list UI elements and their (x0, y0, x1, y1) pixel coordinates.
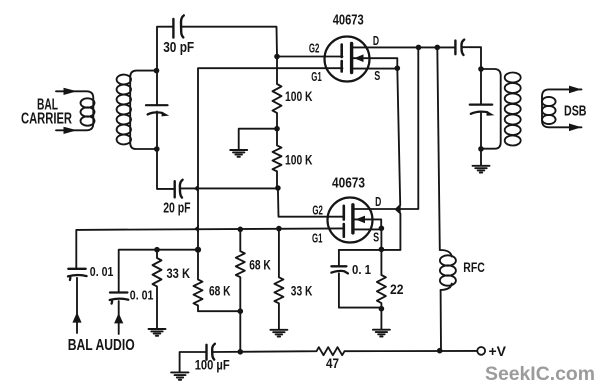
resistor 68 K (left) (194, 250, 241, 312)
arrow: audio input 1 (72, 312, 81, 322)
junction: audio rail 2 / G1 of Q1 / 68K left (195, 247, 201, 253)
junction: output tank top (478, 66, 484, 72)
inductor L1 (left tank coil) (130, 71, 156, 149)
wire: 0.1 bottom to 22 bottom node (339, 273, 382, 307)
junction: tank top node (154, 68, 160, 74)
capacitor 0.01 (right) (110, 291, 127, 293)
svg-text:CARRIER: CARRIER (21, 111, 72, 128)
inductor output tank coil (481, 69, 501, 149)
capacitor tank (left, fixed plate pair) (146, 104, 168, 106)
svg-text:22: 22 (390, 282, 404, 297)
wire: 30pF left lead + left tank vertical (upper part) (157, 27, 173, 106)
transistor Q1 drain lead + top bus to coupling cap (353, 46, 455, 48)
svg-text:RFC: RFC (463, 260, 485, 275)
junction: Q1 source node (395, 65, 401, 71)
resistor 22 (377, 249, 386, 308)
wire: audio rail 2 (BAL AUDIO phase 2 to G1 of upper FET) (119, 250, 198, 292)
capacitor coupling (output) (454, 41, 456, 55)
ground: 33K left (149, 329, 166, 336)
wire: tank vertical lower + to ground (480, 113, 482, 165)
transistor Q1 substrate lead with arrow, joins source (353, 58, 397, 68)
junction: audio rail 1 / 33K right (276, 226, 282, 232)
resistor 68 K (middle) (236, 229, 245, 351)
svg-text:47: 47 (326, 356, 339, 371)
wire: left tank vertical (lower part) + lead to 20pF (157, 112, 175, 189)
svg-text:33 K: 33 K (291, 284, 313, 299)
wire: coupling cap to output tank top (463, 47, 481, 104)
junction: G2 node of Q1 (274, 54, 280, 60)
junction: Q2 source / substrate (379, 226, 385, 232)
svg-text:40673: 40673 (332, 175, 365, 191)
arrow: carrier input bottom (64, 127, 78, 134)
wire: 22 node to ground (380, 309, 382, 330)
junction: drain bus / RFC feed (435, 45, 441, 51)
svg-text:30 pF: 30 pF (163, 40, 194, 56)
wire: G1 lead of upper FET + long vertical down to audio rail 2 (198, 68, 343, 250)
crossover jog at audio rail 1 (194, 225, 199, 233)
svg-text:S: S (374, 68, 380, 83)
inductor T1 primary (BAL CARRIER input coil) (56, 91, 93, 130)
svg-text:100 K: 100 K (285, 89, 313, 104)
svg-text:G1: G1 (311, 69, 322, 84)
wire: common source vertical with jog over lower drain wire (396, 68, 401, 249)
svg-text:40673: 40673 (333, 11, 364, 28)
wire: G2 lead upper FET (277, 56, 343, 58)
ground: 100uF (171, 372, 188, 379)
transistor Q1 40673 (upper): envelope (325, 37, 370, 82)
arrow: DSB bottom (569, 124, 582, 132)
transistor Q1 gate bars (340, 45, 343, 58)
junction: drain bus / Q2 drain feed (416, 45, 422, 51)
wire: 30pF right plate to G2 node of upper FET (181, 27, 277, 57)
transistor Q2 gate bars (342, 206, 345, 220)
wire: audio rail 1 (BAL AUDIO phase 1 to G1 of lower FET) (76, 228, 343, 268)
svg-text:S: S (373, 230, 379, 245)
arrow: DSB top (569, 86, 582, 94)
capacitor output tank (with trimmer tail) (470, 103, 492, 105)
svg-text:DSB: DSB (564, 104, 587, 120)
svg-text:100 K: 100 K (285, 153, 313, 168)
transistor Q2 drain lead, up to top bus (355, 47, 419, 209)
inductor RFC choke line (437, 47, 441, 350)
crossover jog: source vertical over drain wire (drawn above) (396, 205, 401, 213)
svg-text:0. 1: 0. 1 (352, 262, 371, 277)
junction: 100K midpoint node (274, 126, 280, 132)
junction: 68K bottoms node (238, 308, 244, 314)
junction: Q2 source rail (379, 247, 385, 253)
transistor Q2 substrate lead with arrow (355, 219, 382, 228)
junction: output tank bottom (478, 146, 484, 152)
terminal +V open circle (477, 347, 485, 355)
crossover jog at 20pF wire (194, 185, 199, 193)
junction: supply rail / RFC bottom (437, 348, 443, 354)
capacitor 30 pF (172, 19, 174, 38)
transistor Q2 source lead (355, 228, 382, 230)
svg-text:G2: G2 (312, 203, 323, 218)
wire: source rail of lower FET (339, 249, 401, 251)
junction: supply rail / bias feed (238, 349, 244, 355)
transistor Q1 source lead (353, 68, 397, 70)
junction: tank bottom node (154, 146, 160, 152)
wire: below 0.01 right with input arrow (118, 301, 120, 334)
resistor 100 K (upper) (273, 57, 282, 129)
ground: 33K right (270, 330, 287, 337)
svg-text:0. 01: 0. 01 (130, 287, 154, 302)
capacitor 100 uF (205, 345, 207, 360)
capacitor 0.01 (left) (68, 268, 85, 270)
resistor 100 K (lower) (273, 129, 282, 188)
arrow: audio input 2 (114, 313, 123, 323)
resistor 33 K (right) (274, 229, 283, 330)
svg-text:20 pF: 20 pF (163, 200, 191, 216)
svg-text:SeekIC.com: SeekIC.com (485, 364, 595, 385)
wire: 20pF right plate across vertical to 100K junction (181, 187, 278, 189)
resistor 33 K (left) (153, 250, 162, 329)
svg-text:100 µF: 100 µF (195, 356, 230, 372)
junction: 22 / 0.1 bottom node (379, 306, 385, 312)
svg-text:+V: +V (489, 344, 507, 359)
wire: below 0.01 left with input arrow (76, 278, 78, 333)
junction: audio rail 2 / 33K left (154, 247, 160, 253)
svg-text:68 K: 68 K (249, 257, 271, 272)
ground: source network (373, 330, 390, 337)
capacitor 20 pF (173, 181, 175, 197)
svg-text:68 K: 68 K (209, 284, 231, 299)
wire: Q2 source down to source rail (380, 228, 382, 249)
svg-text:0. 01: 0. 01 (90, 264, 114, 279)
svg-text:BAL AUDIO: BAL AUDIO (68, 337, 135, 354)
svg-text:G1: G1 (312, 231, 323, 246)
wire: ground branch from 100K midpoint (239, 129, 277, 150)
junction: 20pF / G2 node of Q2 (275, 185, 281, 191)
svg-text:G2: G2 (309, 41, 320, 56)
transistor Q1 channel bar (350, 44, 353, 73)
ground: output tank (473, 166, 490, 173)
svg-text:D: D (373, 33, 379, 48)
junction: audio rail 1 / 68K middle (238, 227, 244, 233)
capacitor 0.1 (338, 250, 340, 266)
wire: 100K bottom node down and right to G2 of lower FET (278, 188, 343, 217)
arrow: carrier input top (64, 88, 78, 95)
ground: 100K midpoint (230, 150, 247, 157)
inductor DSB output coil (542, 89, 582, 127)
resistor 47 in supply rail (214, 347, 478, 355)
transistor Q2 channel bar (351, 205, 354, 233)
wire: bottom supply rail with 47 resistor (180, 352, 207, 372)
svg-text:33 K: 33 K (167, 266, 191, 281)
transistor Q2 40673 (lower): envelope (328, 198, 373, 243)
svg-text:D: D (375, 194, 381, 209)
